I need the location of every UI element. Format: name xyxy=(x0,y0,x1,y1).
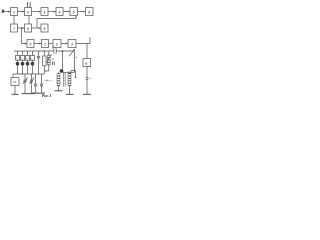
svg-text:3: 3 xyxy=(71,43,73,47)
feedback wire up to box5 xyxy=(37,16,77,28)
label 47 xyxy=(52,47,55,50)
box 12 xyxy=(53,40,61,48)
supply rail top xyxy=(14,50,75,52)
variable arrow xyxy=(69,49,78,60)
tap tick xyxy=(46,80,53,82)
svg-text:3: 3 xyxy=(44,11,46,15)
wire junction down to box10 xyxy=(22,28,27,44)
box 8 xyxy=(25,24,32,32)
trimmer capacitor C9 xyxy=(30,74,36,93)
capacitor C5 in rail xyxy=(53,49,57,54)
box 4 xyxy=(56,8,63,16)
ground G5 xyxy=(38,92,45,94)
wire to output box xyxy=(86,44,88,59)
svg-text:2: 2 xyxy=(26,11,29,15)
label M xyxy=(52,59,54,61)
transformer winding A xyxy=(57,72,60,90)
ground G1 xyxy=(12,93,19,95)
svg-text:8: 8 xyxy=(27,27,29,31)
box 5 xyxy=(70,8,78,16)
transistor T4 branch xyxy=(31,51,35,74)
ground G2 xyxy=(22,93,29,95)
ground G7 xyxy=(66,93,74,95)
svg-text:1: 1 xyxy=(13,11,15,15)
box 3 xyxy=(41,8,48,16)
box 10 xyxy=(27,40,34,48)
capacitor C10 xyxy=(34,74,37,93)
transistor T2 branch xyxy=(21,51,25,74)
resistor R1 xyxy=(43,50,46,74)
wire right side loop xyxy=(74,51,76,72)
wire box2 to box3 xyxy=(32,11,41,13)
svg-text:9: 9 xyxy=(44,27,46,31)
output box B xyxy=(83,59,91,95)
ground G6 xyxy=(55,90,63,92)
capacitor C11 xyxy=(40,74,47,93)
wire box4 to box5 xyxy=(63,11,70,13)
wire box7 to box8 with junction xyxy=(18,27,25,29)
wire box2 down to box8 xyxy=(28,16,30,24)
ground G8 xyxy=(83,93,91,95)
svg-text:1: 1 xyxy=(44,43,46,47)
box 29 xyxy=(11,74,19,94)
box 1 xyxy=(11,8,18,16)
box 9 xyxy=(41,24,48,32)
wire box8 to box9 with tee xyxy=(32,27,41,29)
svg-text:5: 5 xyxy=(73,11,75,15)
svg-text:Рис.1: Рис.1 xyxy=(42,93,52,98)
wire box13 output up xyxy=(76,37,90,44)
wire box5 to box6 xyxy=(78,11,86,13)
svg-text:4: 4 xyxy=(58,11,61,15)
switch ticks xyxy=(86,77,92,80)
svg-text:0: 0 xyxy=(30,43,32,47)
capacitor C7 xyxy=(52,62,54,66)
transistor T1 branch xyxy=(16,51,20,74)
svg-text:6: 6 xyxy=(88,11,90,15)
box 7 xyxy=(11,24,18,32)
junction node xyxy=(62,50,64,52)
wire box1 to box2 xyxy=(18,11,25,13)
wire box3 to box4 xyxy=(48,11,56,13)
wire box10 to box11 xyxy=(34,43,41,45)
box 13 xyxy=(68,40,76,48)
antenna input xyxy=(2,9,11,13)
ground G4 xyxy=(32,92,39,94)
caption xyxy=(42,93,52,98)
up-down arrows above box 2 xyxy=(27,2,31,8)
svg-text:M: M xyxy=(52,59,54,61)
transformer winding B xyxy=(68,71,76,94)
ground G3 xyxy=(28,93,35,95)
transistor T5 xyxy=(60,51,75,73)
wire box1 down to box7 xyxy=(13,16,15,24)
branch with capacitor C6 xyxy=(37,51,40,74)
svg-text:2: 2 xyxy=(55,43,58,47)
transistor T3 branch xyxy=(26,51,30,74)
inductor L1 xyxy=(44,51,51,71)
box 2 xyxy=(25,8,32,16)
wire box12 to box13 xyxy=(61,43,68,45)
box 11 xyxy=(42,40,49,48)
trimmer capacitor C8 xyxy=(23,74,29,93)
middle rail xyxy=(13,73,44,74)
svg-text:7м: 7м xyxy=(89,78,92,80)
box 6 xyxy=(86,8,94,16)
transformer core xyxy=(63,73,65,87)
wire box11 to box12 xyxy=(49,43,53,45)
